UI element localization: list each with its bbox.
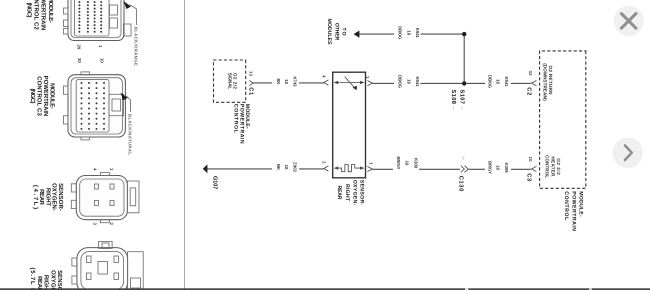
close button: [614, 6, 644, 36]
svg-text:RIGHT: RIGHT: [344, 184, 350, 202]
callout BLACK/NATURAL: [121, 93, 133, 156]
svg-text:C3: C3: [526, 173, 533, 182]
svg-text:MODULE-: MODULE-: [49, 83, 56, 109]
svg-text:O2 RETURN: O2 RETURN: [548, 66, 553, 96]
svg-text:OXYGEN-: OXYGEN-: [51, 183, 58, 211]
svg-text:4: 4: [322, 75, 327, 78]
pin 13 C1: [249, 81, 253, 86]
next button: [613, 138, 643, 168]
svg-text:POWERTRAIN: POWERTRAIN: [40, 0, 47, 30]
svg-text:18: 18: [284, 165, 289, 170]
svg-text:BK: BK: [276, 79, 281, 86]
svg-text:RIGHT: RIGHT: [44, 188, 51, 207]
label SENSOR-OXYGEN-RIGHT REAR (5.7L HO): [29, 268, 63, 290]
svg-text:S107: S107: [459, 90, 466, 105]
svg-text:CONTROL: CONTROL: [563, 191, 569, 221]
svg-text:10: 10: [100, 58, 105, 63]
sensor heater top pin: [367, 166, 372, 171]
svg-text:BK: BK: [276, 164, 281, 171]
pin 10 C3: [531, 166, 537, 171]
svg-text:G107: G107: [212, 176, 219, 190]
wire S108 to sensor pin 1: [421, 82, 463, 84]
svg-text:4: 4: [93, 168, 98, 171]
svg-text:18: 18: [496, 165, 501, 170]
svg-text:MODULES: MODULES: [326, 19, 332, 46]
svg-text:S108: S108: [450, 90, 457, 105]
svg-text:OXYGEN-: OXYGEN-: [352, 180, 358, 206]
svg-text:K309: K309: [504, 163, 509, 174]
svg-text:CONTROL C2: CONTROL C2: [33, 0, 40, 30]
svg-text:MODULE-: MODULE-: [47, 0, 54, 23]
node S107 splice dot: [462, 32, 466, 36]
connector SENSOR-OXYGEN-RIGHT REAR (4.7L): [71, 168, 139, 226]
svg-text:(DOWNSTREAM): (DOWNSTREAM): [542, 63, 547, 101]
svg-text:1: 1: [369, 162, 374, 165]
in-line connector C130: [461, 166, 465, 173]
svg-text:CONTROL: CONTROL: [233, 104, 239, 134]
wire splice bus S107-S108: [463, 34, 465, 83]
svg-text:C2: C2: [526, 87, 533, 95]
svg-text:DB/OG: DB/OG: [487, 75, 492, 89]
svg-text:CONTROL: CONTROL: [545, 155, 550, 178]
svg-text:30: 30: [77, 58, 82, 63]
svg-text:OTHER: OTHER: [333, 23, 339, 41]
svg-text:K941: K941: [415, 28, 420, 39]
svg-text:BR/GY: BR/GY: [487, 161, 492, 174]
svg-text:K309: K309: [413, 158, 418, 169]
svg-text:==: ==: [460, 106, 464, 110]
svg-text:SENSOR-: SENSOR-: [359, 180, 365, 206]
heater element symbol: [336, 165, 362, 172]
wire C130 to sensor heater pin: [419, 168, 460, 170]
svg-text:2: 2: [322, 161, 327, 164]
bottom table border bar: [0, 288, 650, 290]
wire to other modules: [421, 33, 463, 35]
svg-text:C1: C1: [248, 87, 255, 96]
svg-text:C130: C130: [458, 176, 465, 192]
module-powertrain control box (bottom, C1): [214, 60, 246, 102]
svg-text:(NGC): (NGC): [26, 3, 33, 18]
svg-text:BLACK/ORANGE: BLACK/ORANGE: [134, 27, 139, 66]
svg-text:29: 29: [77, 45, 82, 50]
connector MODULE-POWERTRAIN CONTROL C2 (NGC): [64, 0, 132, 50]
sensor pin 2: [324, 166, 329, 171]
svg-text:K941: K941: [504, 77, 509, 88]
svg-text:==: ==: [452, 106, 456, 110]
svg-text:1: 1: [98, 45, 103, 48]
svg-text:TO: TO: [341, 28, 347, 36]
svg-text:RIGHT: RIGHT: [43, 275, 50, 290]
svg-text:10: 10: [528, 157, 533, 163]
wire sensor pin 4 to C1: [299, 82, 324, 84]
svg-text:2: 2: [109, 223, 114, 226]
svg-text:32: 32: [528, 71, 533, 77]
svg-text:O2 2/2: O2 2/2: [556, 158, 561, 175]
wire sensor pin 2 to ground: [299, 168, 324, 170]
svg-text:18: 18: [405, 161, 410, 166]
module-powertrain control box (top, C2/C3): [540, 51, 586, 188]
svg-text:CONTROL C3: CONTROL C3: [36, 76, 43, 116]
svg-text:SENSOR-: SENSOR-: [56, 270, 63, 290]
svg-text:REAR: REAR: [36, 276, 43, 290]
svg-text:REAR: REAR: [38, 189, 45, 205]
svg-text:SENSOR-: SENSOR-: [57, 183, 64, 211]
svg-text:3: 3: [93, 223, 98, 226]
svg-text:Z902: Z902: [292, 162, 297, 173]
svg-text:(5.7L HO): (5.7L HO): [29, 268, 36, 290]
svg-text:BLACK/NATURAL: BLACK/NATURAL: [128, 114, 133, 155]
label MODULE-POWERTRAIN CONTROL C3 (NGC): [29, 76, 55, 117]
svg-text:BR/GY: BR/GY: [396, 157, 401, 170]
separator line: [184, 0, 186, 290]
oxygen sensing element symbol: [336, 82, 362, 84]
node S108 splice dot: [462, 81, 466, 85]
svg-text:POWERTRAIN: POWERTRAIN: [42, 76, 49, 117]
sensor-oxygen-right rear box: [333, 72, 366, 178]
svg-text:REAR: REAR: [336, 186, 342, 200]
svg-text:K743: K743: [292, 77, 297, 88]
callout BLACK/ORANGE: [124, 1, 139, 66]
svg-text:DB/OG: DB/OG: [398, 75, 403, 89]
label MODULE-POWERTRAIN CONTROL C2 (NGC): [26, 0, 55, 30]
svg-text:13: 13: [249, 71, 254, 77]
svg-text:18: 18: [284, 79, 289, 84]
svg-text:1: 1: [109, 168, 114, 171]
svg-text:HEATER: HEATER: [550, 157, 555, 178]
svg-text:DB/OG: DB/OG: [398, 26, 403, 40]
svg-text:18: 18: [496, 79, 501, 84]
svg-text:K941: K941: [415, 77, 420, 88]
svg-text:OXYGEN-: OXYGEN-: [49, 270, 56, 290]
pin 32 C2: [531, 81, 537, 86]
label SENSOR-OXYGEN-RIGHT REAR (4.7L): [32, 183, 64, 211]
svg-text:18: 18: [406, 30, 411, 35]
wire C2 pin to splice S108: [511, 82, 531, 84]
connector MODULE-POWERTRAIN CONTROL C3 (NGC): [64, 58, 126, 140]
arrow to other modules: [354, 31, 360, 38]
wire C3 pin to C130: [511, 168, 531, 170]
sensor pin 4: [324, 80, 329, 85]
connector SENSOR-OXYGEN-RIGHT REAR (5.7L HO): [72, 241, 143, 290]
ground G107: [203, 164, 208, 173]
svg-text:(NGC): (NGC): [29, 89, 36, 104]
sensor pin 1: [367, 81, 372, 86]
svg-text:SIGNAL: SIGNAL: [228, 73, 233, 90]
svg-text:MODULE-: MODULE-: [578, 191, 584, 217]
svg-text:12: 12: [461, 156, 465, 160]
svg-text:POWERTRAIN: POWERTRAIN: [571, 191, 577, 231]
svg-text:(4.7L): (4.7L): [32, 185, 39, 209]
svg-text:18: 18: [406, 79, 411, 84]
